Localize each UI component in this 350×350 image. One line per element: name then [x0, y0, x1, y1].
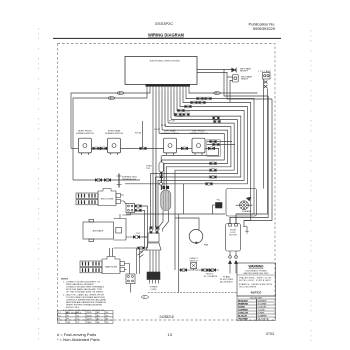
- svg-text:SURFACE SWITCH: SURFACE SWITCH: [105, 132, 123, 135]
- svg-text:LEFT REAR: LEFT REAR: [165, 130, 177, 133]
- svg-text:TOD: TOD: [136, 233, 141, 235]
- svg-text:BROIL ELEM: BROIL ELEM: [101, 199, 114, 201]
- svg-text:0703: 0703: [266, 332, 274, 336]
- svg-text:240V: 240V: [87, 312, 92, 314]
- svg-text:GN=GREEN: GN=GREEN: [238, 319, 248, 321]
- svg-text:P10 W: P10 W: [155, 129, 161, 131]
- svg-text:24255218: 24255218: [159, 315, 173, 319]
- svg-text:BL=BLUE: BL=BLUE: [238, 316, 248, 318]
- svg-text:WIRING DIAGRAM: WIRING DIAGRAM: [148, 33, 185, 38]
- svg-text:LBL=LT BLUE: LBL=LT BLUE: [258, 319, 270, 321]
- svg-text:ELECTRONIC OVEN CONTROL: ELECTRONIC OVEN CONTROL: [150, 61, 181, 63]
- svg-text:T=TAN: T=TAN: [258, 309, 265, 312]
- svg-text:MOTOR: MOTOR: [229, 234, 237, 236]
- svg-text:NOTED FIRST, STRIPE NEXT: NOTED FIRST, STRIPE NEXT: [239, 280, 272, 282]
- svg-text:Y=YELLOW: Y=YELLOW: [238, 313, 249, 315]
- svg-text:ILL OF PARTS: ILL OF PARTS: [204, 275, 218, 278]
- svg-text:YELLOW STRIPE: YELLOW STRIPE: [239, 287, 257, 289]
- svg-text:P24 BK: P24 BK: [135, 133, 142, 135]
- svg-text:SWITCH: SWITCH: [190, 260, 198, 262]
- svg-text:240V: 240V: [87, 315, 92, 317]
- svg-text:SERVICING: SERVICING: [66, 307, 79, 309]
- svg-text:ANT BAKE: ANT BAKE: [93, 230, 104, 233]
- svg-text:WARNING: WARNING: [249, 265, 265, 269]
- svg-text:# P9 LAMP: # P9 LAMP: [258, 70, 272, 73]
- svg-text:GY=GRAY: GY=GRAY: [258, 303, 268, 306]
- svg-text:13: 13: [168, 332, 173, 337]
- svg-text:*FAN: *FAN: [204, 244, 209, 247]
- svg-text:BAKE ELEM: BAKE ELEM: [105, 266, 117, 269]
- svg-text:W=WHITE: W=WHITE: [258, 301, 268, 303]
- svg-text:V=VIOLET: V=VIOLET: [258, 307, 268, 309]
- svg-text:P4 OR: P4 OR: [169, 120, 175, 122]
- svg-text:G=GREEN: G=GREEN: [258, 316, 267, 318]
- svg-text:RIGHT REAR: RIGHT REAR: [108, 130, 121, 133]
- svg-text:GND: GND: [87, 322, 92, 324]
- svg-text:RECEPT: RECEPT: [240, 71, 249, 73]
- svg-text:W: W: [67, 319, 69, 321]
- svg-text:GSS3P2C: GSS3P2C: [155, 21, 174, 26]
- svg-text:-NOTICE-: -NOTICE-: [250, 291, 262, 295]
- svg-text:CORD: CORD: [151, 289, 157, 291]
- svg-text:ALL MODELS: ALL MODELS: [220, 281, 233, 284]
- svg-text:P1 R: P1 R: [186, 111, 191, 113]
- svg-text:BK=BLACK: BK=BLACK: [238, 300, 248, 303]
- svg-text:LAMP: LAMP: [246, 210, 252, 213]
- svg-text:TERMINAL BLK: TERMINAL BLK: [122, 178, 137, 181]
- svg-text:120V: 120V: [87, 319, 92, 321]
- svg-text:SWITCH: SWITCH: [241, 79, 249, 81]
- svg-text:P2 BK: P2 BK: [178, 116, 184, 118]
- svg-text:SURFACE SWITCH: SURFACE SWITCH: [76, 132, 94, 135]
- svg-text:TOD: TOD: [146, 168, 151, 170]
- svg-text:O=ORANGE: O=ORANGE: [238, 309, 249, 312]
- svg-text:P=PINK: P=PINK: [258, 313, 266, 315]
- svg-text:SURFACE SWITCH: SURFACE SWITCH: [161, 132, 179, 135]
- svg-text:OF THE ORIGINAL WIRE OR WIRES: OF THE ORIGINAL WIRE OR WIRES: [66, 291, 104, 294]
- svg-text:BR=BROWN: BR=BROWN: [238, 304, 248, 306]
- svg-text:COLOR CODE: COLOR CODE: [250, 297, 263, 299]
- svg-text:SURFACE SWITCH: SURFACE SWITCH: [190, 132, 208, 135]
- svg-text:* = Non-Illustrated Parts: * = Non-Illustrated Parts: [57, 337, 100, 342]
- svg-text:BEFORE SERVICING UNIT: BEFORE SERVICING UNIT: [244, 273, 270, 275]
- svg-text:R=RED: R=RED: [238, 307, 245, 309]
- svg-text:P7 BK: P7 BK: [161, 125, 167, 127]
- svg-text:NOTES: NOTES: [61, 279, 69, 281]
- svg-text:5995393229: 5995393229: [253, 26, 276, 31]
